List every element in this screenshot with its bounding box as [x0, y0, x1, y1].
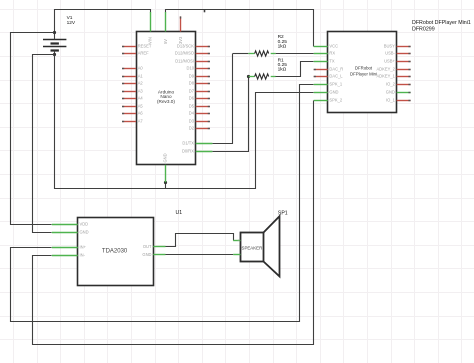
svg-text:TDA2030: TDA2030 — [102, 249, 128, 255]
DFPlayer left pins — [314, 47, 328, 101]
svg-text:DFPlayer Mini: DFPlayer Mini — [350, 72, 377, 77]
Arduino top pins VIN 5V 3V3 — [151, 12, 181, 32]
DFPlayer left pin labels — [329, 44, 343, 103]
svg-text:12V: 12V — [67, 20, 76, 26]
wire battery+ to Arduino VIN (top rail) — [55, 10, 151, 40]
svg-text:IO_2: IO_2 — [386, 82, 396, 87]
svg-text:3V3: 3V3 — [178, 36, 183, 44]
wire TDA GND to speaker - — [166, 254, 234, 256]
svg-text:IN-: IN- — [80, 253, 86, 258]
svg-text:DFR0299: DFR0299 — [412, 27, 435, 33]
TDA2030 left pin labels — [80, 222, 89, 258]
svg-text:D9: D9 — [189, 74, 195, 79]
svg-text:VCC: VCC — [329, 44, 338, 49]
svg-text:D11/MOSI: D11/MOSI — [175, 59, 194, 64]
svg-text:IO_1: IO_1 — [386, 98, 396, 103]
Arduino left pins (red) — [122, 47, 136, 122]
svg-text:D10: D10 — [186, 66, 194, 71]
svg-text:GND: GND — [80, 230, 89, 235]
svg-text:VIN: VIN — [148, 37, 153, 44]
Arduino top pin labels — [148, 36, 183, 44]
Arduino right pin labels — [175, 44, 195, 154]
svg-text:U1: U1 — [176, 210, 183, 216]
DFPlayer title text — [350, 66, 377, 77]
svg-text:A7: A7 — [138, 119, 144, 124]
op-amp U1 TDA2030 body — [78, 218, 154, 286]
svg-text:D7: D7 — [189, 89, 195, 94]
junction bendpoint tick on 5V wire — [204, 9, 206, 12]
svg-text:GND: GND — [386, 90, 395, 95]
TDA2030 right pins — [153, 247, 165, 255]
svg-text:D0/RX: D0/RX — [182, 149, 194, 154]
svg-text:(Rev3.0): (Rev3.0) — [157, 99, 175, 104]
label V1 12V — [67, 15, 76, 26]
wire Arduino 5V to DFPlayer VCC — [166, 10, 314, 47]
svg-text:USB+: USB+ — [384, 59, 395, 64]
svg-text:ADKEY_1: ADKEY_1 — [376, 74, 395, 79]
svg-text:A6: A6 — [138, 111, 144, 116]
svg-text:SPK_2: SPK_2 — [329, 98, 342, 103]
op-amp U? Arduino Nano body — [137, 32, 196, 165]
svg-text:VDD: VDD — [80, 222, 89, 227]
svg-text:A2: A2 — [138, 81, 144, 86]
svg-text:OUT: OUT — [143, 244, 152, 249]
svg-text:D8: D8 — [189, 81, 195, 86]
svg-text:1kΩ: 1kΩ — [278, 43, 287, 49]
wire GND bus to DFPlayer GND — [55, 55, 314, 189]
Arduino Nano title text — [157, 90, 175, 104]
Arduino left pin labels — [138, 44, 152, 124]
svg-text:DAC_R: DAC_R — [329, 67, 343, 72]
svg-text:D6: D6 — [189, 96, 195, 101]
svg-text:DAC_L: DAC_L — [329, 74, 343, 79]
svg-text:DFRobot DFPlayer Mini1: DFRobot DFPlayer Mini1 — [412, 20, 471, 26]
wire TDA OUT to speaker + — [166, 234, 234, 247]
svg-text:D2: D2 — [189, 126, 195, 131]
svg-text:GND: GND — [329, 90, 338, 95]
svg-text:RX: RX — [329, 51, 335, 56]
svg-text:A5: A5 — [138, 104, 144, 109]
svg-text:SPEAKER: SPEAKER — [242, 246, 263, 251]
svg-text:SP1: SP1 — [278, 210, 288, 216]
svg-text:A1: A1 — [138, 74, 144, 79]
wire Arduino D1/TX to R2 — [213, 54, 233, 144]
svg-text:IN+: IN+ — [80, 245, 87, 250]
svg-text:BUSY: BUSY — [384, 44, 395, 49]
wire battery+ to TDA2030 VDD (left rail) — [11, 33, 55, 225]
wire DFPlayer SPK_2 to TDA IN- — [33, 101, 314, 345]
svg-text:5V: 5V — [163, 39, 168, 44]
junction Arduino GND — [164, 181, 167, 184]
svg-text:ADKEY_2: ADKEY_2 — [376, 67, 395, 72]
TDA2030 right pin labels — [142, 244, 152, 257]
wire battery- to TDA2030 GND — [33, 55, 55, 233]
label U1 — [176, 210, 183, 216]
svg-text:AREF: AREF — [138, 51, 149, 56]
DFPlayer right pin labels — [376, 44, 395, 103]
svg-text:D12/MISO: D12/MISO — [175, 51, 194, 56]
svg-text:A0: A0 — [138, 66, 144, 71]
TDA2030 title text — [102, 249, 128, 255]
svg-text:USB-: USB- — [385, 51, 395, 56]
svg-text:1kΩ: 1kΩ — [278, 67, 287, 73]
wire battery- terminal — [54, 50, 56, 54]
op-amp DFPlayer Mini1 body — [328, 32, 397, 113]
TDA2030 left pins — [52, 225, 78, 256]
battery V1 plates — [43, 40, 66, 51]
Arduino bottom pin label — [163, 153, 168, 162]
svg-text:A3: A3 — [138, 89, 144, 94]
label R2 value — [278, 34, 288, 49]
resistor R2 — [233, 51, 314, 56]
label SP1 — [278, 210, 288, 216]
svg-text:D4: D4 — [189, 111, 195, 116]
label DFRobot DFPlayer Mini1 DFR0299 — [412, 20, 471, 33]
DFPlayer right pins — [397, 47, 411, 101]
Arduino right pins — [196, 47, 213, 152]
junction battery- node — [53, 53, 56, 56]
svg-text:D5: D5 — [189, 104, 195, 109]
speaker label text — [242, 246, 263, 251]
svg-text:SPK_1: SPK_1 — [329, 82, 342, 87]
speaker SP1 body — [241, 216, 280, 276]
svg-text:A4: A4 — [138, 96, 144, 101]
speaker SP1 pins — [233, 241, 240, 255]
junction battery+ node — [53, 31, 56, 34]
svg-text:D1/TX: D1/TX — [182, 141, 194, 146]
svg-text:TX: TX — [329, 59, 335, 64]
svg-text:D3: D3 — [189, 119, 195, 124]
label R1 value — [278, 57, 288, 72]
junction R1 left node — [247, 75, 250, 78]
Arduino bottom pin GND — [165, 165, 167, 183]
resistor R1 — [249, 62, 314, 80]
wire Arduino D0/RX to R1 — [213, 77, 249, 152]
svg-text:+: + — [237, 238, 239, 242]
svg-text:GND: GND — [163, 153, 168, 162]
svg-text:DFRobot: DFRobot — [355, 66, 373, 71]
wire stub Arduino GND to bus — [165, 182, 167, 188]
svg-text:GND: GND — [142, 252, 151, 257]
speaker plus mark — [237, 238, 239, 242]
wire DFPlayer SPK_1 to TDA IN+ — [11, 85, 314, 322]
